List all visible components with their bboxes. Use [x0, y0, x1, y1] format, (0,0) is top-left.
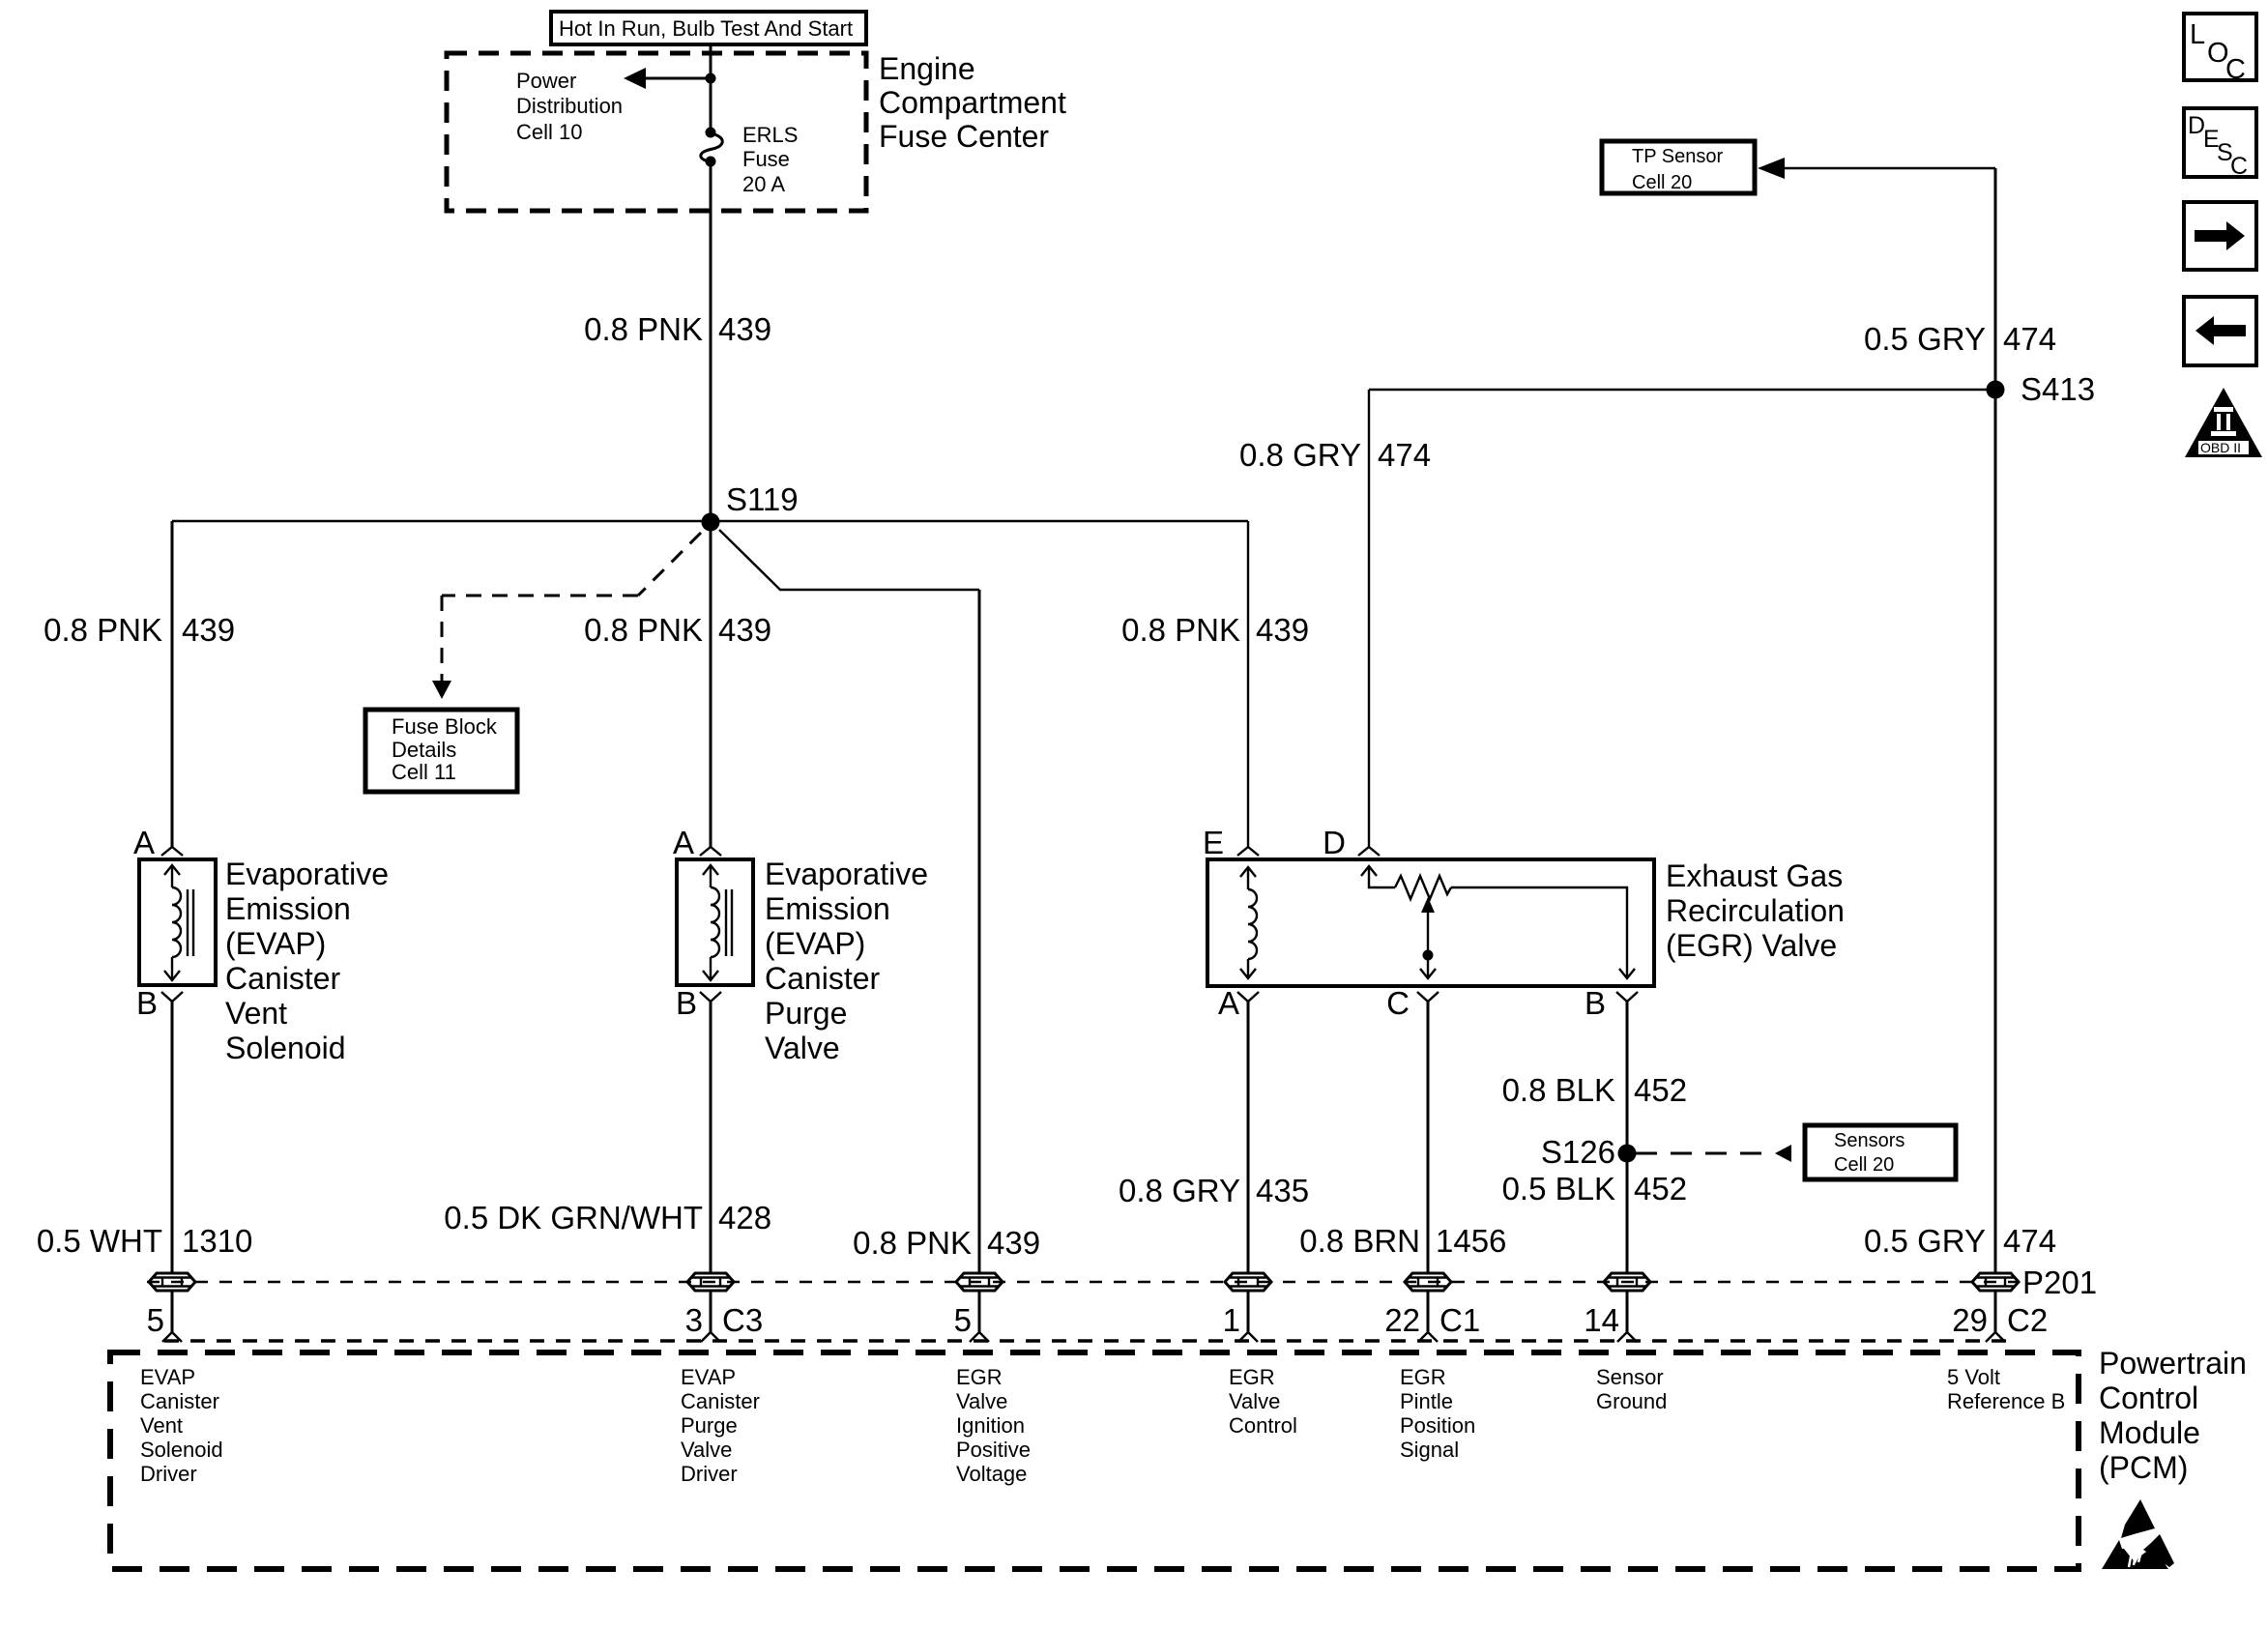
svg-text:474: 474 [2003, 1223, 2056, 1259]
wire w5 into PCM [1418, 1291, 1438, 1342]
svg-text:EVAP: EVAP [140, 1365, 195, 1389]
label Exhaust Gas Recirculation (EGR) Valve [1666, 858, 1845, 963]
svg-text:B: B [676, 985, 697, 1021]
svg-text:22: 22 [1384, 1302, 1420, 1338]
svg-text:439: 439 [182, 612, 235, 648]
svg-text:Purge: Purge [681, 1413, 738, 1438]
svg-text:C2: C2 [2007, 1302, 2048, 1338]
icon ESD sensitive symbol [2102, 1499, 2174, 1569]
svg-text:E: E [1203, 825, 1224, 860]
label EVAP Canister Vent Solenoid Driver [140, 1365, 223, 1486]
wire w4 EGR A to PCM [1247, 1002, 1250, 1272]
label 0.8 PNK 439 (top feed) [584, 311, 771, 347]
EGR valve U3 box [1207, 859, 1654, 986]
svg-text:Solenoid: Solenoid [140, 1438, 223, 1462]
in-line connector terminal w4 [1225, 1273, 1271, 1291]
PCM connector face dashed line [164, 1339, 2007, 1343]
connector P201 dashed line [147, 1281, 2017, 1284]
label 0.8 BLK 452 [1502, 1072, 1687, 1108]
svg-text:0.8 PNK: 0.8 PNK [44, 612, 162, 648]
wire w4 into PCM [1238, 1291, 1258, 1342]
svg-text:Solenoid: Solenoid [225, 1031, 346, 1065]
svg-text:0.5 WHT: 0.5 WHT [37, 1223, 162, 1259]
pin B connector of vent solenoid [136, 985, 183, 1021]
svg-text:ERLS: ERLS [742, 123, 798, 147]
svg-text:0.8 PNK: 0.8 PNK [584, 612, 703, 648]
svg-text:0.8 BLK: 0.8 BLK [1502, 1072, 1615, 1108]
wire arrow to Power Distribution [624, 68, 711, 89]
svg-text:Position: Position [1400, 1413, 1475, 1438]
pin A connector of EGR valve [1218, 985, 1259, 1021]
label 0.8 BRN 1456 [1299, 1223, 1506, 1259]
svg-text:Vent: Vent [140, 1413, 183, 1438]
in-line connector terminal w2 [687, 1273, 734, 1291]
svg-text:S119: S119 [726, 481, 799, 517]
label EGR Valve Control [1229, 1365, 1297, 1438]
svg-text:Cell 10: Cell 10 [516, 120, 582, 144]
label 0.8 PNK 439 (w3) [853, 1225, 1040, 1261]
wire w6 EGR B sensor ground to PCM [1626, 1002, 1629, 1272]
svg-text:0.8 BRN: 0.8 BRN [1299, 1223, 1420, 1259]
svg-text:C1: C1 [1439, 1302, 1480, 1338]
label 0.5 GRY 474 (bottom) [1864, 1223, 2056, 1259]
svg-text:0.8 GRY: 0.8 GRY [1239, 437, 1361, 473]
wire dashed branch to Fuse Block Details [432, 533, 701, 699]
svg-text:14: 14 [1584, 1302, 1619, 1338]
label EVAP Canister Purge Valve Driver [681, 1365, 760, 1486]
svg-text:Reference B: Reference B [1947, 1389, 2065, 1413]
svg-text:A: A [133, 825, 155, 860]
svg-text:Recirculation: Recirculation [1666, 893, 1845, 928]
svg-text:Hot In Run, Bulb Test And Star: Hot In Run, Bulb Test And Start [559, 16, 853, 41]
svg-text:B: B [136, 985, 158, 1021]
svg-text:Compartment: Compartment [879, 85, 1066, 120]
svg-text:474: 474 [1378, 437, 1431, 473]
label 0.5 GRY 474 (top) [1864, 321, 2056, 357]
svg-text:C: C [2230, 153, 2248, 180]
svg-text:S126: S126 [1541, 1134, 1615, 1170]
svg-text:0.5 DK GRN/WHT: 0.5 DK GRN/WHT [444, 1200, 703, 1236]
svg-text:Vent: Vent [225, 996, 287, 1031]
fuse ERLS 20A [701, 123, 799, 196]
svg-text:Distribution: Distribution [516, 94, 623, 118]
svg-text:Driver: Driver [140, 1462, 197, 1486]
svg-text:3: 3 [685, 1302, 703, 1338]
svg-text:0.8 GRY: 0.8 GRY [1119, 1173, 1240, 1208]
svg-text:428: 428 [718, 1200, 771, 1236]
svg-text:1: 1 [1223, 1302, 1240, 1338]
pin B connector of EGR valve [1585, 985, 1638, 1021]
label Powertrain Control Module (PCM) [2099, 1346, 2247, 1485]
svg-text:Sensor: Sensor [1596, 1365, 1664, 1389]
pin D connector of EGR valve [1323, 825, 1380, 860]
splice S126 [1541, 1134, 1637, 1170]
box Fuse Block Details Cell 11 [365, 710, 517, 792]
EVAP canister vent solenoid U1 [139, 859, 216, 985]
wire dashed S126 to Sensors reference [1636, 1145, 1791, 1162]
svg-text:0.8 PNK: 0.8 PNK [853, 1225, 972, 1261]
box Sensors Cell 20 [1805, 1125, 1956, 1179]
svg-text:435: 435 [1256, 1173, 1309, 1208]
wire w7 5 volt reference vertical [1994, 168, 1997, 1272]
svg-text:0.8 PNK: 0.8 PNK [1121, 612, 1240, 648]
icon OBD II triangle [2185, 388, 2262, 457]
svg-text:A: A [673, 825, 694, 860]
label 0.8 GRY 474 [1239, 437, 1431, 473]
svg-text:Module: Module [2099, 1415, 2200, 1450]
svg-text:Power: Power [516, 69, 576, 93]
wire w3 into PCM [970, 1291, 989, 1342]
box "Hot In Run, Bulb Test And Start" [551, 12, 866, 44]
icon LOC box [2184, 14, 2256, 85]
in-line connector terminal w1 [149, 1273, 195, 1291]
EVAP canister purge valve U2 [677, 859, 753, 985]
svg-text:0.5 GRY: 0.5 GRY [1864, 1223, 1986, 1259]
svg-text:D: D [1323, 825, 1346, 860]
wire w1 into PCM [162, 1291, 182, 1342]
pin 3 C3 [685, 1302, 764, 1338]
svg-text:C: C [1386, 985, 1410, 1021]
svg-text:439: 439 [718, 311, 771, 347]
svg-text:Engine: Engine [879, 51, 975, 86]
svg-text:Evaporative: Evaporative [225, 857, 389, 891]
svg-text:20 A: 20 A [742, 172, 785, 196]
svg-text:474: 474 [2003, 321, 2056, 357]
wire arrow to TP Sensor [1758, 158, 1995, 179]
label 0.5 WHT 1310 [37, 1223, 253, 1259]
svg-text:A: A [1218, 985, 1239, 1021]
svg-text:Control: Control [1229, 1413, 1297, 1438]
svg-text:Cell 20: Cell 20 [1834, 1154, 1894, 1176]
svg-text:L: L [2190, 19, 2205, 50]
svg-text:Control: Control [2099, 1381, 2198, 1415]
label 5 Volt Reference B [1947, 1365, 2065, 1413]
svg-text:C: C [2225, 54, 2246, 85]
wire S119 horizontal bus [172, 520, 1248, 522]
wire w1 vertical EVAP vent feed [171, 521, 174, 847]
svg-text:Sensors: Sensors [1834, 1130, 1905, 1151]
svg-text:(EGR) Valve: (EGR) Valve [1666, 928, 1837, 963]
svg-text:439: 439 [987, 1225, 1040, 1261]
svg-text:S413: S413 [2021, 371, 2095, 407]
svg-text:1310: 1310 [182, 1223, 252, 1259]
label 0.8 PNK 439 (w2) [584, 612, 771, 648]
svg-text:29: 29 [1952, 1302, 1988, 1338]
wire w7 into PCM [1986, 1291, 2005, 1342]
svg-text:Cell 11: Cell 11 [392, 760, 456, 784]
svg-text:5: 5 [954, 1302, 972, 1338]
svg-text:Cell 20: Cell 20 [1632, 172, 1692, 193]
svg-text:Ignition: Ignition [956, 1413, 1025, 1438]
svg-text:Fuse Block: Fuse Block [392, 714, 498, 739]
pin E connector of EGR valve [1203, 825, 1259, 860]
box TP Sensor Cell 20 [1602, 141, 1755, 193]
svg-text:452: 452 [1634, 1072, 1687, 1108]
svg-text:P201: P201 [2022, 1265, 2097, 1300]
svg-text:Exhaust Gas: Exhaust Gas [1666, 858, 1843, 893]
pin 29 C2 [1952, 1302, 2048, 1338]
svg-text:Valve: Valve [1229, 1389, 1280, 1413]
svg-text:(PCM): (PCM) [2099, 1450, 2188, 1485]
wire w2 purge valve feed S119 to pin A [710, 522, 712, 847]
label 0.8 PNK 439 (w1) [44, 612, 235, 648]
svg-text:Driver: Driver [681, 1462, 738, 1486]
icon left arrow box [2184, 297, 2256, 365]
svg-text:Canister: Canister [225, 961, 341, 996]
wire w5d vertical to EGR pin D [1368, 390, 1370, 847]
svg-text:Valve: Valve [681, 1438, 732, 1462]
svg-text:Ground: Ground [1596, 1389, 1667, 1413]
wire w1 B to PCM [171, 1002, 174, 1272]
wire w5 EGR C to PCM [1427, 1002, 1430, 1272]
svg-text:Emission: Emission [765, 891, 890, 926]
svg-text:(EVAP): (EVAP) [225, 926, 326, 961]
svg-text:EVAP: EVAP [681, 1365, 736, 1389]
svg-text:TP Sensor: TP Sensor [1632, 146, 1723, 167]
svg-text:Canister: Canister [140, 1389, 219, 1413]
svg-text:B: B [1585, 985, 1606, 1021]
svg-text:Powertrain: Powertrain [2099, 1346, 2247, 1381]
svg-text:Valve: Valve [765, 1031, 840, 1065]
in-line connector terminal w6 [1604, 1273, 1650, 1291]
splice S413 [1987, 371, 2096, 407]
label EGR Valve Ignition Positive Voltage [956, 1365, 1031, 1486]
wire S119 diagonal to EGR ignition feed [719, 530, 979, 590]
label Evaporative Emission (EVAP) Canister Vent Solenoid [225, 857, 389, 1065]
wire w3 EGR ignition voltage to PCM [978, 590, 981, 1272]
svg-text:(EVAP): (EVAP) [765, 926, 865, 961]
Engine Compartment Fuse Center dashed box [447, 53, 866, 211]
svg-text:439: 439 [1256, 612, 1309, 648]
wire w4 EGR solenoid feed, S119 bus corner to pin E [1247, 521, 1249, 847]
pin C connector of EGR valve [1386, 985, 1439, 1021]
svg-text:452: 452 [1634, 1171, 1687, 1206]
svg-text:439: 439 [718, 612, 771, 648]
label Engine Compartment Fuse Center [879, 51, 1066, 154]
label 0.8 GRY 435 [1119, 1173, 1309, 1208]
pin 22 C1 [1384, 1302, 1480, 1338]
pin A connector of vent solenoid [133, 825, 183, 860]
label 0.8 PNK 439 (w4) [1121, 612, 1309, 648]
EGR solenoid coil [1240, 867, 1257, 978]
svg-text:0.5 BLK: 0.5 BLK [1502, 1171, 1615, 1206]
label Sensor Ground [1596, 1365, 1667, 1413]
svg-text:Positive: Positive [956, 1438, 1031, 1462]
svg-text:5: 5 [147, 1302, 164, 1338]
in-line connector terminal w7 P201 [1972, 1273, 2019, 1291]
splice S119 [702, 481, 799, 532]
EGR wiper arm [1420, 897, 1436, 978]
wire fuse to S119 [710, 161, 712, 521]
wire w2 B to PCM [710, 1002, 712, 1272]
svg-text:1456: 1456 [1436, 1223, 1506, 1259]
svg-text:OBD II: OBD II [2200, 440, 2241, 455]
EGR pintle resistor R [1361, 866, 1635, 978]
label Power Distribution Cell 10 [516, 69, 623, 144]
svg-text:Emission: Emission [225, 891, 351, 926]
icon right arrow box [2184, 202, 2256, 270]
pin A connector of purge valve [673, 825, 721, 860]
svg-text:Fuse Center: Fuse Center [879, 119, 1049, 154]
label Evaporative Emission (EVAP) Canister Purge Valve [765, 857, 928, 1065]
svg-text:Evaporative: Evaporative [765, 857, 928, 891]
svg-text:Details: Details [392, 738, 456, 762]
svg-text:0.5 GRY: 0.5 GRY [1864, 321, 1986, 357]
svg-text:Valve: Valve [956, 1389, 1007, 1413]
pin B connector of purge valve [676, 985, 721, 1021]
svg-text:C3: C3 [722, 1302, 763, 1338]
svg-text:Canister: Canister [765, 961, 881, 996]
wire w2 into PCM [701, 1291, 720, 1342]
icon DESC box [2184, 108, 2256, 180]
wire w6 into PCM [1617, 1291, 1637, 1342]
svg-text:5 Volt: 5 Volt [1947, 1365, 2000, 1389]
node junction at fuse feed [706, 73, 716, 84]
svg-text:EGR: EGR [1400, 1365, 1446, 1389]
in-line connector terminal w5 [1405, 1273, 1451, 1291]
label 0.5 DK GRN/WHT 428 [444, 1200, 771, 1236]
label EGR Pintle Position Signal [1400, 1365, 1475, 1462]
svg-text:EGR: EGR [1229, 1365, 1275, 1389]
svg-text:Canister: Canister [681, 1389, 760, 1413]
svg-text:Fuse: Fuse [742, 147, 790, 171]
in-line connector terminal w3 [956, 1273, 1003, 1291]
wire S413 horizontal to EGR D [1369, 389, 1995, 391]
wire from Hot box to fuse [710, 44, 712, 132]
svg-text:Voltage: Voltage [956, 1462, 1027, 1486]
svg-text:Purge: Purge [765, 996, 847, 1031]
svg-text:EGR: EGR [956, 1365, 1003, 1389]
svg-text:0.8 PNK: 0.8 PNK [584, 311, 703, 347]
PCM module dashed box [110, 1352, 2079, 1569]
svg-text:Pintle: Pintle [1400, 1389, 1453, 1413]
svg-text:Signal: Signal [1400, 1438, 1459, 1462]
label 0.5 BLK 452 [1502, 1171, 1687, 1206]
